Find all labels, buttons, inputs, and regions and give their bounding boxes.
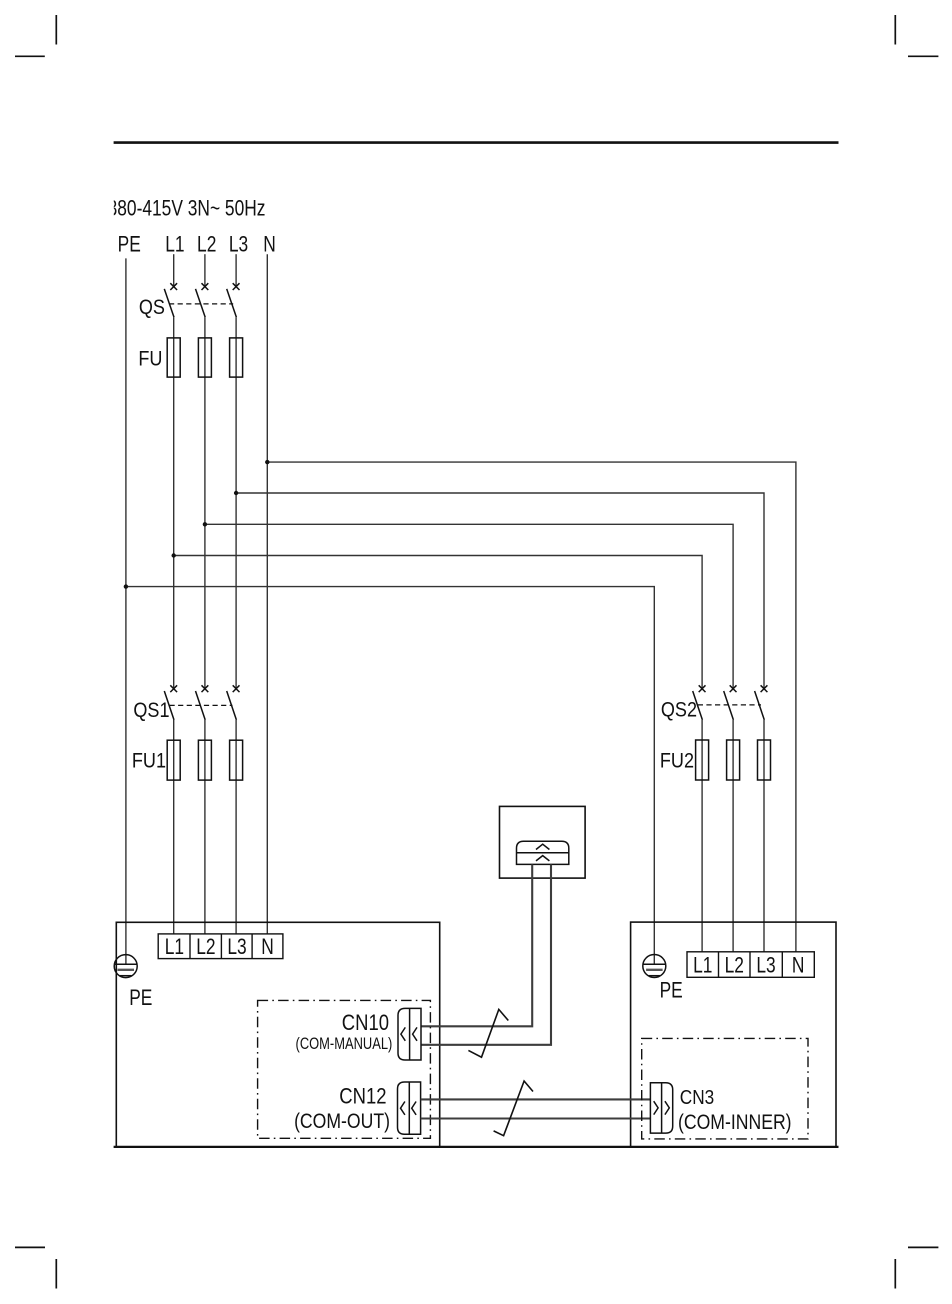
svg-text:(COM-OUT): (COM-OUT) [294,1110,390,1134]
fuse FU1 pole L2 [198,740,211,780]
connector CN10 [398,1008,421,1060]
fuse FU2 pole L1 [696,740,709,780]
wire L3 feed middle [235,317,237,688]
disconnect switch QS2 [693,685,768,720]
svg-text:L3: L3 [227,935,246,959]
disconnect switch QS1 [164,685,239,720]
fuse FU1 pole L1 [167,740,180,780]
wire N feed [266,254,268,934]
wire QS2 L2 to terminal [732,720,734,952]
wire control box to CN10 lower [421,864,551,1044]
right unit box [631,922,836,1147]
control box [500,806,586,878]
svg-text:PE: PE [118,233,141,257]
svg-text:N: N [792,953,805,977]
wire QS2 L1 to terminal [701,720,703,952]
svg-text:FU2: FU2 [660,749,694,773]
svg-text:L1: L1 [165,935,184,959]
top rule [114,141,839,144]
junction node L2 bus [203,522,207,526]
svg-text:L3: L3 [229,233,248,257]
wire L2 bus to QS2 [205,524,733,688]
svg-text:N: N [261,935,274,959]
junction node N bus [265,460,269,464]
supply label 380-415V 3N~ 50Hz [96,194,265,222]
fuse FU2 pole L2 [727,740,740,780]
terminal strip right [687,952,814,978]
wire QS2 L3 to terminal [763,720,765,952]
junction node L3 bus [234,491,238,495]
fuse FU pole L1 [167,338,180,377]
svg-text:QS2: QS2 [661,698,697,722]
wire L3 feed lower [235,720,237,934]
wire CN12 to CN3 lower [421,1117,651,1119]
svg-text:L2: L2 [725,953,744,977]
crop mark top-left [15,15,56,56]
svg-text:CN12: CN12 [339,1085,386,1109]
junction node L1 bus [172,553,176,557]
crop mark top-right [895,15,938,56]
svg-text:PE: PE [129,986,152,1010]
connector CN12 [398,1082,421,1134]
wire L1 feed middle [173,317,175,688]
fuse FU1 pole L3 [230,740,243,780]
svg-text:CN10: CN10 [342,1012,389,1036]
inner dash-dot box right unit [642,1038,808,1139]
svg-text:QS1: QS1 [133,698,169,722]
wire L3 feed upper [235,254,237,287]
terminal strip left [158,934,283,959]
disconnect switch QS [164,283,239,317]
svg-text:(COM-INNER): (COM-INNER) [678,1111,792,1135]
svg-text:380-415V 3N~ 50Hz: 380-415V 3N~ 50Hz [108,197,266,221]
svg-text:L2: L2 [197,233,216,257]
svg-text:QS: QS [139,296,165,320]
connector in control box [517,841,569,864]
wire L2 feed middle [204,317,206,688]
crop mark bottom-left [15,1247,56,1288]
crop mark bottom-right [895,1247,938,1288]
wire L2 feed upper [204,254,206,287]
twisted pair mark CN10 cable [468,1009,508,1057]
svg-text:FU1: FU1 [132,749,166,773]
svg-text:L1: L1 [693,953,712,977]
protective earth symbol right [643,955,666,978]
fuse FU pole L2 [198,338,211,377]
wire L1 bus to QS2 [174,556,702,689]
svg-text:N: N [263,233,276,257]
svg-text:L2: L2 [196,935,215,959]
wire N bus to right unit [267,462,796,952]
wire L2 feed lower [204,720,206,934]
twisted pair mark CN12 cable [494,1081,533,1136]
protective earth symbol left [114,955,137,978]
wire L1 feed upper [173,254,175,287]
wire L3 bus to QS2 [236,493,764,689]
connector CN3 [650,1083,672,1133]
bottom rule [114,1146,839,1148]
svg-text:L3: L3 [756,953,775,977]
svg-text:L1: L1 [165,233,184,257]
svg-text:CN3: CN3 [680,1086,714,1109]
svg-text:(COM-MANUAL): (COM-MANUAL) [296,1034,393,1053]
junction node PE bus [124,584,128,588]
svg-text:PE: PE [660,979,683,1003]
fuse FU2 pole L3 [758,740,771,780]
fuse FU pole L3 [230,338,243,377]
wire CN12 to CN3 upper [421,1098,651,1100]
wire PE bus to right unit [126,587,654,965]
svg-text:FU: FU [138,347,162,371]
wire L1 feed lower [173,720,175,934]
left unit box [116,922,439,1147]
inner dash-dot box left unit [258,1000,431,1138]
wire PE feed [125,258,127,964]
wire control box to CN10 upper [421,864,532,1026]
